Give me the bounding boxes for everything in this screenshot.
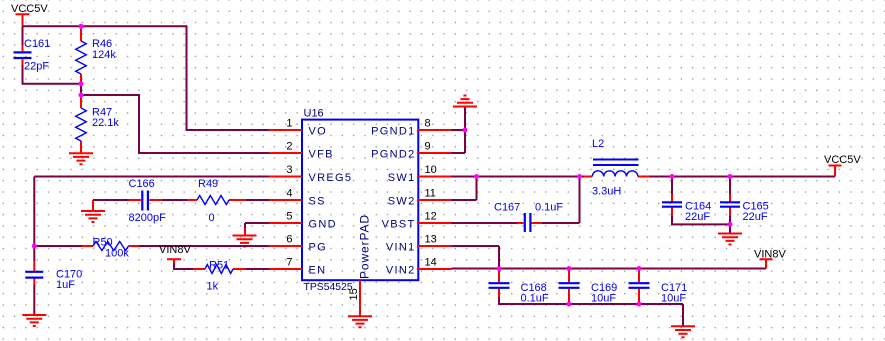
svg-text:0.1uF: 0.1uF — [521, 292, 549, 304]
wire VCC5V rail to pin 1 VO — [23, 26, 270, 130]
svg-text:R49: R49 — [198, 178, 218, 190]
node C165 top — [728, 174, 733, 179]
svg-text:VIN2: VIN2 — [386, 265, 416, 277]
ground (below C170) — [22, 315, 46, 326]
node VREG5/C170/PG — [32, 244, 37, 249]
pin stubs right 8-14 — [417, 130, 452, 269]
wire SW2 up to SW1 — [452, 177, 477, 201]
node R47 top / VFB — [79, 93, 84, 98]
svg-text:10uF: 10uF — [591, 292, 616, 304]
svg-text:C167: C167 — [494, 202, 520, 214]
svg-text:2: 2 — [286, 141, 292, 153]
wire L2 to VCC5V — [650, 176, 836, 178]
wire C166 to R49 — [162, 199, 187, 201]
wire left vertical VREG5 to PG node — [33, 177, 35, 247]
svg-text:PowerPAD: PowerPAD — [358, 214, 372, 279]
wire SW1 row to L2 — [452, 176, 585, 178]
resistor R46 — [76, 26, 117, 83]
node C171 bottom — [637, 302, 642, 307]
svg-text:VREG5: VREG5 — [309, 172, 353, 184]
wire bottom rail to ground — [682, 304, 684, 326]
resistor R47 — [76, 95, 120, 153]
ground (SS row, left of C166) — [81, 200, 105, 222]
wire pin 9 PGND2 — [452, 107, 466, 154]
svg-text:U16: U16 — [304, 108, 324, 120]
pin numbers right 8-14 — [425, 118, 437, 269]
ground (pin 5 GND) — [233, 228, 257, 247]
wire caps bottom rail — [499, 297, 683, 304]
svg-text:8200pF: 8200pF — [129, 212, 167, 224]
junction node dots — [32, 24, 733, 307]
capacitor C161 — [14, 38, 51, 73]
svg-text:1: 1 — [286, 118, 292, 130]
svg-text:124k: 124k — [92, 49, 116, 61]
wire pin 5 GND to ground — [245, 223, 269, 228]
svg-text:SW1: SW1 — [388, 172, 416, 184]
capacitor C167 — [494, 202, 563, 233]
node VIN1/VIN2/C168 — [497, 266, 502, 271]
power symbol VIN8V (middle) — [167, 259, 181, 263]
svg-text:11: 11 — [425, 188, 436, 200]
svg-text:VFB: VFB — [309, 149, 334, 161]
pin stubs left 1-7 — [269, 130, 302, 269]
pin 15 stub — [359, 280, 361, 317]
pin names left column — [309, 126, 353, 277]
svg-text:SS: SS — [309, 196, 326, 208]
capacitor C165 — [720, 177, 769, 224]
svg-text:GND: GND — [309, 219, 337, 231]
wire VFB net to pin 2 — [81, 95, 269, 153]
svg-text:VIN8V: VIN8V — [159, 244, 191, 256]
node C169 bottom — [567, 302, 572, 307]
svg-text:VIN1: VIN1 — [386, 242, 416, 254]
svg-text:VO: VO — [309, 126, 328, 138]
node C164/C165 bottom — [728, 222, 733, 227]
node PGND — [463, 128, 468, 133]
node C161/R46 bottom — [79, 81, 84, 86]
node C169 top — [567, 266, 572, 271]
power symbol VCC5V (right) — [829, 166, 842, 177]
svg-text:3.3uH: 3.3uH — [592, 185, 621, 197]
wire pin 14 VIN2 row to VIN8V — [452, 268, 767, 270]
svg-text:L2: L2 — [592, 138, 604, 150]
svg-text:22uF: 22uF — [685, 211, 710, 223]
capacitor C166 — [129, 178, 167, 224]
capacitor C169 — [559, 269, 618, 305]
power symbol VCC5V (top-left) — [16, 14, 30, 26]
svg-text:9: 9 — [425, 141, 431, 153]
wire C167 up to SW node — [542, 177, 580, 224]
capacitor C171 — [629, 269, 688, 305]
node SW/C167 — [577, 174, 582, 179]
node R46 top / VCC rail — [79, 24, 84, 29]
node SW1/SW2 — [474, 174, 479, 179]
ground (below C164/C165) — [718, 234, 742, 245]
svg-text:EN: EN — [309, 265, 327, 277]
svg-text:VCC5V: VCC5V — [824, 154, 861, 166]
ground (bottom right) — [671, 326, 695, 337]
wire C165 bottom to ground — [729, 216, 731, 234]
svg-text:7: 7 — [286, 257, 292, 269]
svg-text:C166: C166 — [129, 178, 155, 190]
inductor L2 — [584, 138, 650, 197]
svg-text:4: 4 — [286, 188, 292, 200]
wire C170 to ground — [33, 285, 35, 316]
wire R49 to pin 4 SS — [245, 199, 269, 201]
svg-text:TPS54525: TPS54525 — [304, 282, 353, 293]
wire VIN8V to R51 — [174, 263, 193, 269]
wire pin 8 PGND1 — [452, 129, 466, 131]
resistor R49 — [187, 178, 245, 224]
pin numbers left 1-7 — [286, 118, 292, 269]
svg-text:PG: PG — [309, 242, 328, 254]
op-amp U16 TPS54525 IC body — [302, 108, 418, 293]
svg-text:PGND1: PGND1 — [371, 126, 415, 138]
wire R46 bottom to R47 top — [80, 84, 82, 95]
svg-text:VIN8V: VIN8V — [754, 249, 786, 261]
power symbol VIN8V (right) — [760, 259, 773, 268]
svg-text:SW2: SW2 — [388, 196, 416, 208]
svg-text:0.1uF: 0.1uF — [535, 202, 563, 214]
ground (PowerPAD pin 15) — [348, 316, 372, 327]
svg-text:10uF: 10uF — [661, 292, 686, 304]
svg-text:8: 8 — [425, 118, 431, 130]
capacitor C168 — [489, 269, 549, 305]
svg-text:1uF: 1uF — [56, 279, 75, 291]
wire R50 to pin 6 PG — [139, 245, 269, 247]
svg-text:22pF: 22pF — [24, 61, 49, 73]
svg-text:22.1k: 22.1k — [92, 117, 119, 129]
svg-text:10: 10 — [425, 164, 437, 176]
capacitor C164 — [662, 177, 711, 224]
svg-text:0: 0 — [209, 212, 215, 224]
resistor R50 — [82, 237, 139, 260]
svg-text:14: 14 — [425, 257, 437, 269]
wire SS ground to C166 — [93, 199, 129, 201]
wire R51 to pin 7 EN — [245, 268, 269, 270]
node C164 top — [670, 174, 675, 179]
ground (PGND, inverted above wire) — [453, 96, 477, 107]
svg-text:22uF: 22uF — [743, 211, 768, 223]
wire VBST to C167 — [452, 222, 518, 224]
svg-text:R51: R51 — [209, 259, 229, 271]
svg-text:100k: 100k — [105, 248, 129, 260]
svg-text:3: 3 — [286, 164, 292, 176]
wire VREG5 row to pin 3 — [34, 176, 269, 178]
svg-text:6: 6 — [286, 234, 292, 246]
capacitor C170 — [25, 246, 82, 291]
wire C161 bottom to R46 node — [23, 65, 82, 84]
wire C164 bottom to C165 bottom — [672, 216, 730, 224]
svg-text:5: 5 — [286, 211, 292, 223]
svg-text:VBST: VBST — [382, 219, 416, 231]
svg-text:1k: 1k — [207, 280, 219, 292]
svg-text:12: 12 — [425, 211, 437, 223]
wire pin 13 VIN1 down to VIN row — [452, 246, 500, 269]
wire C161 top — [22, 26, 24, 45]
wire PG node to R50 — [34, 245, 82, 247]
svg-text:C161: C161 — [24, 38, 50, 50]
resistor R51 — [193, 259, 245, 292]
svg-text:13: 13 — [425, 234, 437, 246]
node C171 top — [637, 266, 642, 271]
svg-text:PGND2: PGND2 — [371, 149, 415, 161]
pin names right column — [371, 126, 415, 277]
ground (below R47) — [69, 153, 93, 164]
svg-text:VCC5V: VCC5V — [11, 3, 48, 15]
svg-text:15: 15 — [348, 288, 360, 300]
